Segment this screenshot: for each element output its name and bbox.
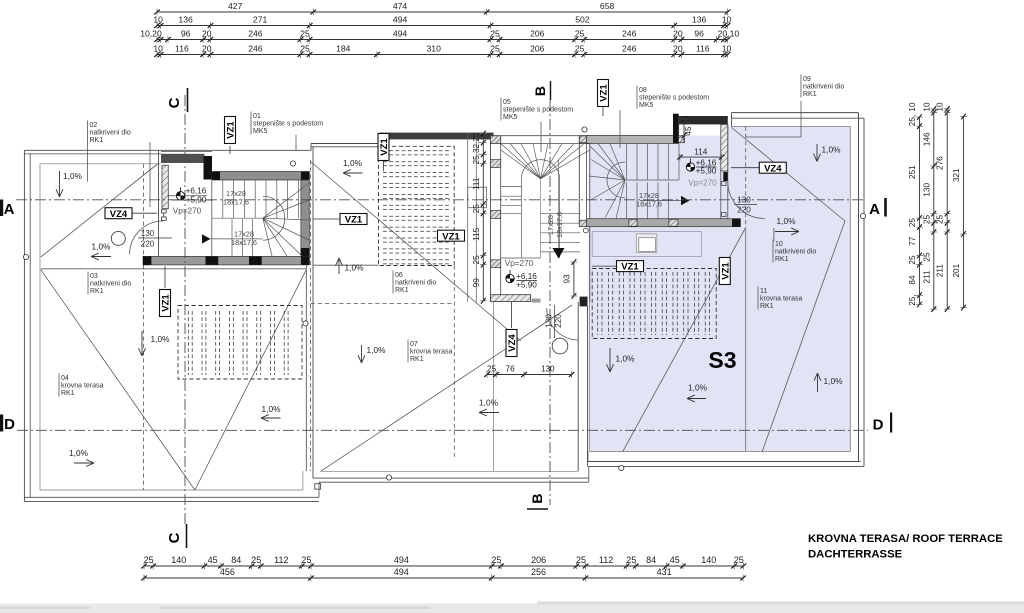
svg-text:25: 25 — [491, 555, 501, 565]
roof diagonal V-right — [195, 270, 306, 490]
svg-text:25: 25 — [301, 555, 311, 565]
svg-text:VZ1: VZ1 — [720, 262, 731, 280]
svg-text:114: 114 — [694, 147, 707, 156]
svg-text:1,0%: 1,0% — [824, 376, 844, 386]
right dim col2 — [933, 109, 935, 309]
svg-text:RK1: RK1 — [90, 137, 104, 144]
svg-text:02: 02 — [90, 122, 98, 129]
svg-text:VZ1: VZ1 — [621, 262, 639, 273]
svg-text:25: 25 — [908, 218, 917, 228]
core05 landing line — [501, 257, 541, 259]
horiz dim 114 — [680, 156, 722, 158]
small circles — [290, 161, 295, 166]
svg-text:natkriveni dio: natkriveni dio — [90, 130, 131, 137]
svg-text:99: 99 — [472, 278, 481, 288]
svg-text:10: 10 — [722, 44, 732, 54]
svg-text:18x17,6: 18x17,6 — [555, 212, 564, 238]
svg-text:115: 115 — [472, 227, 481, 240]
svg-text:VZ4: VZ4 — [764, 163, 782, 174]
stair core01 direction arrow — [202, 234, 211, 243]
VZ1 rotated left of core05 — [378, 134, 390, 161]
svg-text:25: 25 — [472, 204, 481, 214]
svg-text:130: 130 — [737, 196, 751, 205]
roof diagonal blue left — [623, 227, 747, 452]
svg-text:494: 494 — [394, 567, 409, 577]
svg-text:20: 20 — [673, 44, 683, 54]
svg-text:+6,16: +6,16 — [186, 187, 207, 196]
svg-text:494: 494 — [394, 555, 409, 565]
core05 stairs U — [520, 179, 522, 258]
label 03 natkriveni dio — [87, 272, 89, 295]
svg-text:658: 658 — [600, 1, 615, 11]
label 01 stepeniste — [250, 112, 252, 135]
core08 left wall (white, shared) — [578, 135, 580, 226]
core05 winder rays — [501, 144, 541, 179]
axis A — [16, 199, 866, 201]
roof diagonal middle long — [321, 305, 572, 471]
svg-text:45: 45 — [208, 555, 218, 565]
corridor walls below core05 — [577, 302, 579, 471]
svg-text:B: B — [529, 493, 545, 503]
dashed area06 right — [453, 266, 455, 461]
svg-text:MK5: MK5 — [503, 114, 518, 121]
svg-text:20: 20 — [202, 44, 212, 54]
svg-text:06: 06 — [395, 272, 403, 279]
core05 right treads — [541, 213, 581, 215]
svg-text:246: 246 — [622, 44, 637, 54]
core05 right wall — [589, 144, 591, 302]
middle terrace top boundary — [311, 143, 379, 145]
svg-text:25: 25 — [300, 29, 310, 39]
terrace step line right of core01 — [313, 264, 379, 266]
core05 bottom wall — [491, 295, 531, 302]
svg-text:246: 246 — [248, 44, 263, 54]
svg-text:VZ1: VZ1 — [345, 215, 363, 226]
svg-text:10: 10 — [722, 15, 732, 25]
circle blue — [522, 205, 524, 207]
svg-text:KROVNA TERASA/ ROOF TERRACE: KROVNA TERASA/ ROOF TERRACE — [808, 533, 1003, 545]
door arc core01 — [130, 221, 163, 254]
label 09 natkriveni dio — [800, 75, 802, 98]
top dimension row4 — [157, 54, 728, 56]
svg-text:VZ4: VZ4 — [507, 334, 518, 352]
VZ1 box mid-left — [340, 214, 367, 226]
svg-text:Vp=270: Vp=270 — [505, 259, 534, 268]
dashed overhang left — [143, 164, 145, 490]
vert dim 93 — [573, 262, 575, 296]
svg-text:276: 276 — [936, 156, 945, 170]
svg-text:1,0%: 1,0% — [616, 354, 636, 364]
svg-text:45: 45 — [684, 126, 693, 136]
svg-text:VZ4: VZ4 — [110, 209, 128, 220]
svg-text:25: 25 — [734, 555, 744, 565]
roof diagonal blue upper — [732, 128, 846, 222]
svg-text:84: 84 — [231, 555, 241, 565]
svg-text:184: 184 — [336, 44, 351, 54]
svg-text:natkriveni dio: natkriveni dio — [90, 281, 131, 288]
dashed overhang middle-left — [310, 160, 312, 471]
core08 door jamb right — [722, 182, 727, 186]
svg-text:494: 494 — [393, 15, 408, 25]
svg-text:271: 271 — [253, 15, 268, 25]
svg-text:stepenište s podestom: stepenište s podestom — [503, 107, 573, 114]
block boundary left/middle — [305, 266, 307, 472]
roof diagonal middle upper — [311, 162, 521, 341]
svg-text:25: 25 — [626, 555, 636, 565]
VZ4 rotated below core05 — [506, 330, 518, 357]
door arc corridor — [547, 308, 579, 340]
svg-text:256: 256 — [531, 567, 546, 577]
svg-text:310: 310 — [427, 44, 442, 54]
svg-text:25: 25 — [908, 255, 917, 265]
svg-text:116: 116 — [696, 44, 710, 54]
svg-text:220: 220 — [141, 240, 155, 249]
svg-text:10,20: 10,20 — [140, 29, 162, 39]
svg-text:stepenište s podestom: stepenište s podestom — [639, 95, 709, 102]
right dim col1 — [919, 117, 921, 305]
svg-text:1,0%: 1,0% — [92, 242, 112, 252]
svg-text:211: 211 — [936, 264, 945, 277]
svg-text:05: 05 — [503, 99, 511, 106]
vert dim 25,32,25/111/25/115/25/99 — [482, 134, 484, 301]
core08 top wall A — [587, 135, 679, 143]
svg-text:20: 20 — [202, 29, 212, 39]
svg-text:220: 220 — [554, 314, 563, 328]
core08 treads upper flight — [626, 143, 628, 180]
label 10 natkriveni dio — [772, 240, 774, 263]
svg-text:130: 130 — [141, 229, 155, 238]
VZ1 rotated top of core01 — [225, 117, 237, 144]
svg-text:136: 136 — [692, 15, 707, 25]
top dimension row1 — [157, 11, 728, 13]
door arc blue — [728, 182, 765, 219]
svg-text:VZ1: VZ1 — [442, 231, 460, 242]
axis D — [17, 429, 868, 431]
dashed overhang blue — [745, 127, 747, 227]
left terrace outer boundary — [24, 149, 311, 151]
core08 top wall B — [679, 116, 728, 124]
core05 top wall — [491, 135, 590, 137]
svg-text:RK1: RK1 — [90, 288, 104, 295]
VZ1 rotated above core08 — [598, 80, 610, 107]
core05 left wall — [490, 136, 492, 302]
svg-text:25: 25 — [936, 215, 945, 225]
svg-text:146: 146 — [922, 132, 931, 146]
vert dim 45 — [683, 117, 685, 143]
axis label D left — [0, 415, 3, 432]
svg-text:25: 25 — [575, 29, 585, 39]
svg-text:25: 25 — [490, 44, 500, 54]
stair core01 shaft edge — [211, 180, 213, 256]
svg-text:11: 11 — [760, 288, 767, 295]
core08 bottom wall — [587, 219, 741, 227]
blue divider vertical — [745, 229, 747, 452]
svg-text:+5,90: +5,90 — [516, 281, 537, 290]
svg-text:1,0%: 1,0% — [151, 334, 171, 344]
svg-text:1,0%: 1,0% — [262, 404, 282, 414]
svg-text:MK5: MK5 — [639, 102, 654, 109]
svg-text:07: 07 — [410, 341, 418, 348]
label 05 stepeniste — [500, 98, 502, 121]
svg-text:130: 130 — [922, 183, 931, 197]
svg-text:A: A — [869, 201, 880, 218]
stair core01 upper wall band — [212, 172, 309, 181]
bottom dimension row1 — [144, 565, 743, 567]
svg-text:140: 140 — [171, 555, 186, 565]
svg-text:04: 04 — [61, 375, 69, 382]
svg-text:246: 246 — [248, 29, 263, 39]
svg-text:25: 25 — [575, 44, 585, 54]
svg-text:03: 03 — [90, 273, 98, 280]
svg-text:502: 502 — [575, 15, 590, 25]
svg-text:10: 10 — [908, 102, 917, 112]
core05 down arrow — [553, 248, 565, 259]
bottom dimension row2 — [144, 577, 743, 579]
svg-text:206: 206 — [530, 44, 545, 54]
svg-text:Vp=270: Vp=270 — [173, 207, 202, 216]
svg-text:09: 09 — [803, 76, 811, 83]
svg-text:18x17,6: 18x17,6 — [231, 238, 257, 247]
svg-text:25: 25 — [251, 555, 261, 565]
stair core01 right wall — [301, 180, 310, 256]
svg-text:18x17,6: 18x17,6 — [223, 198, 249, 207]
svg-text:17x28: 17x28 — [546, 215, 555, 235]
VZ strip double line + pillar rect — [467, 133, 469, 302]
svg-text:220: 220 — [737, 206, 751, 215]
circle near VZ4 — [111, 231, 125, 245]
right dim col3 — [946, 109, 948, 309]
svg-text:VZ1: VZ1 — [599, 84, 610, 102]
svg-text:136: 136 — [178, 15, 193, 25]
dashed area06 bottom — [311, 303, 455, 305]
VZ1 rotated blue right — [719, 258, 731, 285]
svg-text:96: 96 — [181, 29, 191, 39]
svg-text:DACHTERRASSE: DACHTERRASSE — [808, 549, 903, 561]
svg-text:116: 116 — [175, 44, 189, 54]
svg-text:Vp=270: Vp=270 — [688, 179, 717, 188]
svg-text:RK1: RK1 — [803, 91, 817, 98]
svg-text:MK5: MK5 — [253, 128, 268, 135]
svg-text:206: 206 — [530, 29, 545, 39]
elevation core05 — [506, 274, 514, 282]
svg-text:20,10: 20,10 — [718, 29, 740, 39]
core08 mid landing line — [625, 179, 679, 181]
svg-text:111: 111 — [472, 177, 481, 190]
deck hatch left-bottom (vertical dashed pairs) — [187, 311, 189, 375]
svg-text:25: 25 — [922, 252, 931, 262]
svg-text:stepenište s podestom: stepenište s podestom — [253, 121, 323, 128]
top dimension row2 — [157, 25, 728, 27]
svg-text:25,: 25, — [908, 294, 917, 305]
svg-text:1,0%: 1,0% — [367, 345, 387, 355]
stair core01 bottom wall — [143, 256, 309, 265]
stair core01 winder rays — [263, 183, 309, 218]
svg-text:76: 76 — [506, 365, 516, 374]
stair core01 top wall — [161, 154, 204, 163]
svg-text:1,0%: 1,0% — [345, 263, 365, 273]
svg-text:20: 20 — [673, 29, 683, 39]
svg-text:96: 96 — [694, 29, 704, 39]
svg-text:10: 10 — [936, 102, 945, 112]
core08 arc — [607, 162, 625, 198]
svg-text:10: 10 — [153, 15, 163, 25]
VZ4 box right — [759, 162, 786, 174]
core08 right wall hatched — [721, 124, 728, 171]
VZ1 box blue area — [617, 261, 644, 273]
svg-text:1,0%: 1,0% — [343, 158, 363, 168]
VZ4 box left — [105, 208, 132, 220]
skylight square — [636, 234, 657, 253]
stair core01 treads — [222, 180, 224, 218]
svg-text:246: 246 — [622, 29, 637, 39]
svg-text:10: 10 — [153, 44, 163, 54]
svg-text:krovna terasa: krovna terasa — [410, 349, 453, 356]
landing lighter rect in blue — [592, 232, 701, 257]
svg-text:201: 201 — [952, 263, 961, 277]
svg-text:25: 25 — [922, 215, 931, 225]
svg-text:VZ1: VZ1 — [226, 121, 237, 139]
svg-text:25: 25 — [472, 255, 481, 265]
svg-text:+5,90: +5,90 — [696, 167, 717, 176]
svg-text:krovna terasa: krovna terasa — [760, 296, 803, 303]
svg-text:1,0%: 1,0% — [69, 448, 89, 458]
svg-text:1,0%: 1,0% — [822, 145, 842, 155]
axis B — [549, 100, 551, 505]
core08 treads lower flight — [626, 182, 628, 218]
axis C — [184, 95, 186, 524]
label 11 krovna terasa — [757, 287, 759, 310]
svg-text:1,0%: 1,0% — [479, 398, 499, 408]
svg-text:84: 84 — [908, 275, 917, 285]
deck hatch blue (vertical dashed pairs) — [597, 272, 599, 335]
svg-text:A: A — [4, 201, 15, 218]
svg-text:25,: 25, — [908, 115, 917, 126]
middle terrace bottom boundary — [313, 477, 589, 479]
pergola hatch middle-left (horizontal dashed pairs) — [383, 150, 451, 152]
stair core01 arc — [263, 196, 285, 240]
label 02 natkriveni dio — [87, 121, 89, 144]
svg-text:25: 25 — [576, 555, 586, 565]
horiz dim 25 76 130 — [487, 374, 572, 376]
svg-text:112: 112 — [599, 555, 613, 565]
svg-text:474: 474 — [393, 1, 408, 11]
svg-text:18x17,6: 18x17,6 — [636, 200, 662, 209]
svg-text:08: 08 — [639, 87, 647, 94]
svg-text:25,32,25: 25,32,25 — [472, 132, 481, 164]
svg-text:25: 25 — [490, 29, 500, 39]
svg-text:211: 211 — [922, 270, 931, 283]
svg-text:natkriveni dio: natkriveni dio — [775, 249, 816, 256]
right dim col4 — [963, 117, 965, 308]
svg-text:45: 45 — [670, 555, 680, 565]
svg-text:25: 25 — [144, 555, 154, 565]
label 07 krovna terasa — [407, 340, 409, 363]
svg-text:10: 10 — [775, 241, 783, 248]
svg-text:1,0%: 1,0% — [63, 171, 83, 181]
svg-text:1,0%: 1,0% — [777, 216, 797, 226]
stair core01 hatched left wall — [162, 165, 168, 209]
svg-text:D: D — [4, 416, 15, 433]
svg-text:93: 93 — [562, 274, 571, 284]
circle corridor — [552, 338, 568, 354]
svg-text:140: 140 — [701, 555, 716, 565]
svg-text:C: C — [166, 532, 183, 543]
svg-text:C: C — [166, 97, 183, 108]
top dimension row3 — [157, 39, 728, 41]
heavy wall over pergola VZ — [379, 133, 494, 140]
core08 winder rays — [590, 146, 625, 180]
svg-text:D: D — [873, 417, 884, 434]
core08 direction arrow — [681, 196, 690, 205]
roof ridge left rising — [41, 164, 158, 257]
svg-text:natkriveni dio: natkriveni dio — [395, 280, 436, 287]
elevation core08 — [686, 163, 694, 171]
label 04 krovna terasa — [58, 374, 60, 397]
svg-text:RK1: RK1 — [61, 390, 75, 397]
core05 left treads — [501, 186, 522, 188]
svg-text:krovna terasa: krovna terasa — [61, 383, 104, 390]
svg-text:251: 251 — [908, 165, 917, 179]
VZ1 rotated below core01 — [160, 290, 172, 317]
svg-text:431: 431 — [657, 567, 672, 577]
elevation core01 — [176, 192, 184, 200]
svg-text:427: 427 — [228, 1, 243, 11]
S3 blue terrace fill — [589, 135, 741, 226]
label 08 stepeniste — [636, 86, 638, 109]
svg-text:S3: S3 — [708, 347, 736, 373]
VZ1 box mid hatch — [438, 230, 465, 242]
svg-text:130: 130 — [541, 365, 555, 374]
svg-text:VZ1: VZ1 — [161, 294, 172, 312]
svg-text:RK1: RK1 — [775, 256, 789, 263]
svg-text:natkriveni dio: natkriveni dio — [803, 84, 844, 91]
svg-text:01: 01 — [253, 113, 261, 120]
svg-text:494: 494 — [393, 29, 408, 39]
roof valley horizontal left — [41, 268, 307, 270]
svg-text:VZ1: VZ1 — [379, 138, 390, 156]
svg-text:25: 25 — [300, 44, 310, 54]
svg-text:B: B — [532, 86, 548, 96]
svg-text:1,0%: 1,0% — [688, 383, 708, 393]
stair core01 door jamb — [162, 210, 167, 213]
axis label A left — [0, 200, 3, 217]
svg-text:RK1: RK1 — [395, 287, 409, 294]
svg-text:77: 77 — [908, 236, 917, 246]
svg-text:RK1: RK1 — [410, 356, 424, 363]
bottom strip — [0, 604, 1024, 613]
svg-text:206: 206 — [531, 555, 546, 565]
svg-text:112: 112 — [274, 555, 288, 565]
svg-text:321: 321 — [952, 168, 961, 182]
svg-text:456: 456 — [220, 567, 235, 577]
svg-text:RK1: RK1 — [760, 303, 774, 310]
right blue terrace boundary — [589, 227, 591, 452]
roof diagonal V-left — [41, 270, 195, 490]
label 06 natkriveni dio — [392, 271, 394, 294]
svg-text:10: 10 — [922, 102, 931, 112]
roof diagonal blue right — [762, 221, 845, 452]
svg-text:25: 25 — [487, 365, 497, 374]
svg-text:84: 84 — [646, 555, 656, 565]
